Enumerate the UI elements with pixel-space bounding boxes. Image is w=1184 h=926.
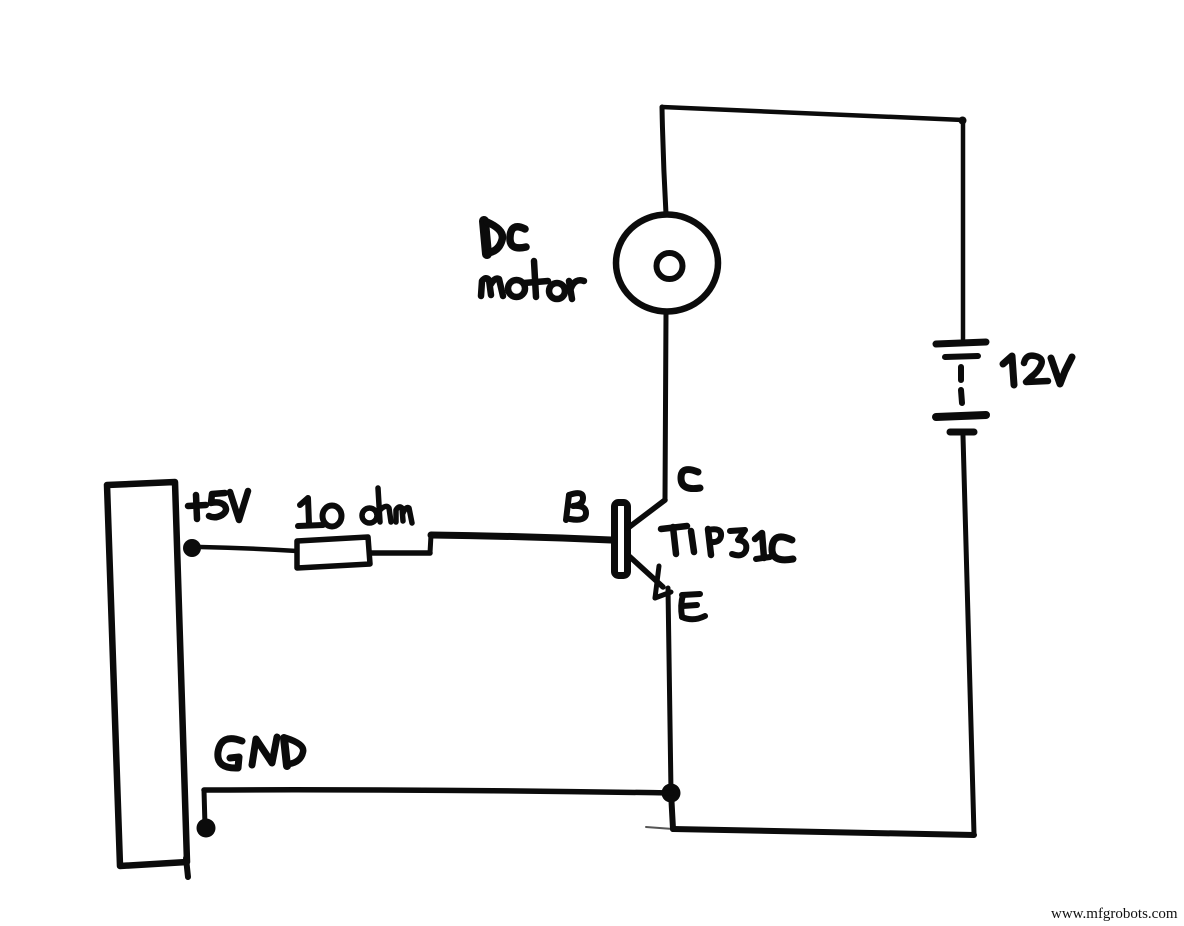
label E xyxy=(681,594,705,619)
label 12V xyxy=(1003,356,1072,385)
node GND pin xyxy=(197,819,216,838)
label DC motor xyxy=(481,221,584,299)
wire top right down to battery xyxy=(959,117,967,340)
transistor Q1 base plate xyxy=(615,503,628,576)
controller board xyxy=(107,482,188,877)
wire motor to top corner xyxy=(662,107,666,214)
watermark www.mfgrobots.com xyxy=(1051,906,1181,923)
wire battery to bottom right corner xyxy=(963,436,974,834)
wire resistor to base xyxy=(370,535,611,553)
wire GND stub xyxy=(204,790,205,826)
junction ground node xyxy=(662,784,681,803)
wire +5V to resistor xyxy=(200,547,297,551)
label c xyxy=(681,470,700,489)
label B xyxy=(566,493,586,520)
transistor Q1 collector lead xyxy=(628,500,665,528)
battery BT1 12V xyxy=(936,342,986,432)
resistor R1 10 ohm xyxy=(297,537,370,568)
wire bottom xyxy=(646,792,974,835)
label +5V xyxy=(188,491,248,520)
label 10 ohm xyxy=(298,488,412,527)
wire GND horizontal xyxy=(204,790,671,793)
wire top horizontal xyxy=(662,107,963,120)
node +5V pin xyxy=(183,539,201,557)
transistor Q1 emitter lead with arrow xyxy=(629,556,671,598)
label TIP31C xyxy=(661,526,793,560)
wire collector to motor xyxy=(665,313,666,500)
wire emitter to ground node xyxy=(668,588,671,792)
label GND xyxy=(218,737,303,768)
motor M1 xyxy=(616,215,718,312)
